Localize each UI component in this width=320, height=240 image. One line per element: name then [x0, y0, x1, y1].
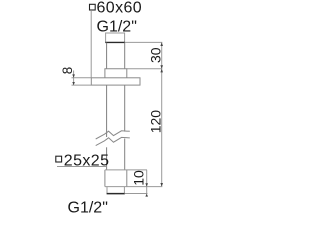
- ceiling plate 60x60: [91, 78, 140, 85]
- dimension 10 top extension (block top edge): [105, 169, 147, 171]
- svg-text:120: 120: [147, 110, 163, 134]
- leader line from 60x60 label to plate: [90, 11, 92, 78]
- svg-text:G1/2": G1/2": [68, 199, 108, 216]
- label 25x25 square symbol and text: [56, 153, 110, 170]
- svg-text:60x60: 60x60: [97, 0, 143, 17]
- outlet stub dark bottom edge: [107, 193, 125, 195]
- svg-text:8: 8: [60, 67, 75, 75]
- dimension 10 arrows: [145, 183, 148, 196]
- dimension 8 dim line: [73, 71, 75, 86]
- dimension 30 dim line: [161, 42, 163, 68]
- break symbol squiggle lower: [96, 137, 130, 145]
- tube upper section below plate: [107, 85, 125, 137]
- neck tube above plate: [107, 43, 125, 69]
- dimension 30 arrows: [160, 42, 163, 68]
- dimension 8 arrows: [72, 74, 75, 85]
- svg-text:10: 10: [131, 170, 147, 186]
- dimension 8 extension lines: [72, 78, 92, 85]
- dimension 120 arrows: [160, 69, 163, 187]
- tube lower section: [107, 139, 125, 170]
- dimension 10 dim line: [146, 170, 148, 194]
- dimension 120 bottom extension line (block bottom): [105, 186, 162, 188]
- outlet stub G1/2: [107, 187, 124, 194]
- dimension 10 bottom extension line: [125, 193, 148, 195]
- thread G1/2 top: [106, 33, 125, 42]
- dimension 120 dim line: [161, 69, 163, 187]
- leader underline from 25x25 label to tube: [57, 166, 107, 168]
- label 60x60 square symbol and text: [90, 0, 143, 17]
- bottom block: [105, 170, 127, 187]
- break symbol squiggle upper: [96, 131, 130, 139]
- thread shoulder dark line: [105, 41, 125, 43]
- escutcheon upper collar: [105, 69, 127, 78]
- dimension 30 extension lines: [125, 42, 163, 68]
- svg-text:30: 30: [147, 47, 163, 63]
